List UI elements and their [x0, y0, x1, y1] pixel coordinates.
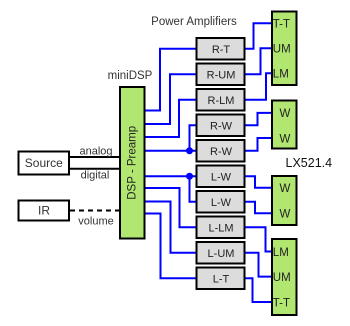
svg-text:L-W: L-W: [211, 197, 232, 209]
svg-text:analog: analog: [79, 146, 112, 158]
wire amp L-W to driver W3: [246, 176, 272, 188]
svg-text:W: W: [280, 183, 291, 195]
wire analog (Source to DSP): [70, 156, 120, 158]
amplifier A10 L-T: [197, 268, 245, 290]
block U1 DSP-Preamp (miniDSP): [120, 87, 145, 239]
svg-text:T-T: T-T: [273, 18, 290, 30]
wire amp R-LM to driver LM: [246, 73, 272, 100]
svg-text:L-T: L-T: [213, 273, 230, 285]
wire DSP out5 to amp L-W upper: [146, 175, 196, 177]
svg-text:miniDSP: miniDSP: [108, 70, 153, 82]
svg-text:T-T: T-T: [273, 297, 290, 309]
amplifier A7 L-W: [197, 191, 245, 213]
svg-text:R-W: R-W: [210, 146, 233, 158]
svg-text:R-T: R-T: [212, 44, 231, 56]
svg-text:L-LM: L-LM: [208, 222, 233, 234]
wire DSP out7 to amp L-UM: [146, 202, 196, 253]
wire digital (Source to DSP): [70, 168, 120, 170]
wire amp R-T to driver T-T: [246, 23, 272, 49]
amplifier A6 L-W: [197, 166, 245, 188]
wire branch to amp L-W lower: [190, 176, 196, 202]
svg-text:R-UM: R-UM: [207, 69, 236, 81]
wire branch to amp R-W upper: [190, 125, 196, 151]
wire DSP out1 to amp R-T: [146, 49, 196, 111]
svg-text:W: W: [280, 133, 291, 145]
speaker left lower (LM UM T-T): [272, 239, 297, 315]
wire DSP out3 to amp R-LM: [146, 100, 196, 137]
wire DSP out6 to amp L-LM: [146, 188, 196, 227]
svg-text:W: W: [280, 209, 291, 221]
svg-text:UM: UM: [273, 43, 291, 55]
node junction L-W: [186, 173, 193, 180]
block IR: [19, 201, 70, 221]
speaker right upper (T-T UM LM): [272, 12, 297, 86]
svg-text:digital: digital: [81, 170, 110, 182]
wire amp L-T to driver T-T left: [246, 278, 272, 302]
wire amp L-LM to driver LM left: [246, 227, 272, 251]
svg-text:R-LM: R-LM: [208, 95, 235, 107]
amplifier A4 R-W: [197, 115, 245, 137]
svg-text:LM: LM: [273, 247, 289, 259]
svg-text:R-W: R-W: [210, 120, 233, 132]
wire DSP out2 to amp R-UM: [146, 74, 196, 124]
amplifier A9 L-UM: [197, 242, 245, 264]
svg-text:volume: volume: [78, 216, 113, 228]
svg-text:UM: UM: [273, 272, 291, 284]
speaker left woofers (W W): [272, 176, 297, 225]
amplifier A2 R-UM: [197, 64, 245, 86]
svg-text:W: W: [280, 108, 291, 120]
wire amp L-W to driver W4: [246, 202, 272, 213]
wire DSP out8 to amp L-T: [146, 214, 196, 279]
svg-text:IR: IR: [38, 204, 50, 218]
wire amp L-UM to driver UM left: [246, 253, 272, 277]
wire DSP out4 to amp R-W lower: [146, 150, 196, 152]
amplifier A3 R-LM: [197, 89, 245, 111]
svg-text:L-UM: L-UM: [208, 248, 235, 260]
svg-text:Power Amplifiers: Power Amplifiers: [151, 16, 237, 28]
wire amp R-W to driver W1: [246, 113, 272, 125]
block Source: [19, 152, 70, 175]
wire amp R-W to driver W2: [246, 138, 272, 151]
amplifier A1 R-T: [197, 38, 245, 60]
svg-text:Source: Source: [25, 156, 63, 170]
svg-text:DSP - Preamp: DSP - Preamp: [126, 126, 138, 200]
wire volume (IR to DSP, dashed): [70, 210, 120, 212]
svg-text:LM: LM: [273, 68, 289, 80]
svg-text:LX521.4: LX521.4: [286, 156, 333, 170]
amplifier A8 L-LM: [197, 217, 245, 239]
amplifier A5 R-W: [197, 140, 245, 162]
svg-text:L-W: L-W: [211, 171, 232, 183]
wire amp R-UM to driver UM: [246, 48, 272, 74]
node junction R-W: [186, 147, 193, 154]
speaker right woofers (W W): [272, 101, 297, 149]
